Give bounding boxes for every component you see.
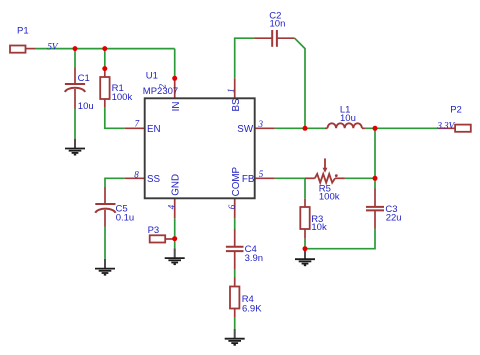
svg-text:6: 6 [227, 204, 237, 209]
svg-text:22u: 22u [386, 213, 402, 224]
svg-text:8: 8 [134, 170, 139, 180]
svg-text:SS: SS [147, 174, 161, 185]
svg-text:7: 7 [135, 119, 140, 129]
svg-text:U1: U1 [146, 70, 158, 81]
svg-text:10u: 10u [340, 113, 356, 124]
svg-text:1: 1 [226, 88, 236, 93]
svg-text:3: 3 [258, 119, 264, 129]
svg-text:FB: FB [242, 174, 255, 185]
svg-text:IN: IN [171, 102, 182, 112]
svg-text:10u: 10u [78, 101, 94, 112]
svg-text:C1: C1 [78, 73, 90, 84]
svg-text:2: 2 [157, 84, 167, 89]
svg-text:100k: 100k [112, 92, 133, 103]
svg-text:10n: 10n [270, 19, 286, 30]
svg-text:100k: 100k [319, 192, 340, 203]
svg-text:5V: 5V [47, 42, 59, 52]
svg-text:P2: P2 [450, 105, 462, 116]
svg-text:10k: 10k [311, 222, 327, 233]
svg-text:GND: GND [170, 174, 181, 196]
svg-text:5: 5 [259, 169, 264, 179]
svg-text:P1: P1 [17, 25, 29, 36]
svg-text:4: 4 [167, 204, 177, 209]
svg-text:EN: EN [147, 124, 161, 135]
svg-text:BS: BS [231, 98, 242, 112]
svg-text:COMP: COMP [231, 166, 242, 196]
svg-text:6.9K: 6.9K [242, 303, 262, 314]
svg-text:3.3V: 3.3V [436, 121, 455, 131]
svg-text:3.9n: 3.9n [245, 253, 264, 264]
svg-text:P3: P3 [148, 225, 160, 236]
svg-text:SW: SW [237, 124, 254, 135]
svg-text:0.1u: 0.1u [116, 213, 135, 224]
